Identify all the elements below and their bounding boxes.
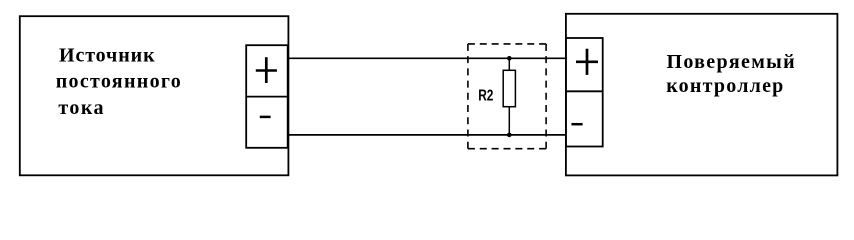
- dashed enclosure around R2: right edge: [545, 44, 547, 149]
- box: DC current source (Источник постоянного тока): [20, 16, 289, 175]
- plus sign (left source + terminal): [256, 57, 277, 83]
- divider line right terminal block: [566, 90, 603, 92]
- plus sign (controller + terminal): [576, 49, 598, 75]
- label: Поверяемый контроллер: [666, 51, 796, 97]
- minus sign (left source - terminal): [260, 116, 271, 119]
- wire: top (+ to +): [288, 57, 566, 59]
- resistor R2 body: [503, 70, 515, 106]
- dashed enclosure around R2: top edge: [468, 43, 546, 45]
- dashed enclosure around R2: left edge: [467, 44, 469, 149]
- svg-text:тока: тока: [58, 97, 105, 119]
- dashed enclosure around R2: bottom edge: [468, 148, 546, 150]
- minus sign (controller - terminal): [571, 123, 582, 126]
- svg-text:Поверяемый: Поверяемый: [667, 51, 797, 73]
- svg-text:постоянного: постоянного: [56, 71, 183, 93]
- junction node top: [507, 56, 512, 61]
- wire: bottom (- to -): [288, 134, 566, 136]
- terminal block (left source +/- ): [246, 45, 288, 148]
- resistor R2 lead wire (vertical): [508, 58, 510, 135]
- label: Источник постоянного тока: [56, 44, 183, 119]
- junction node bottom: [507, 133, 512, 138]
- box: controller under test (Поверяемый контроллер): [566, 14, 838, 176]
- divider line left terminal block: [246, 96, 288, 98]
- svg-text:контроллер: контроллер: [666, 75, 785, 97]
- svg-text:Источник: Источник: [59, 44, 156, 66]
- svg-text:R2: R2: [478, 88, 493, 105]
- terminal block (right controller +/-): [566, 38, 603, 147]
